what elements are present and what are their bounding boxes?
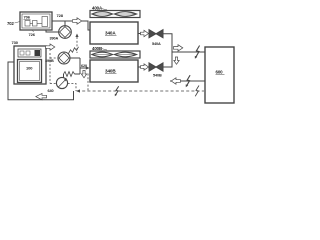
leader 726 — [33, 30, 34, 32]
return wire from cabinet — [8, 62, 74, 100]
evaporator unit 340A — [90, 22, 138, 44]
dashed enclosure right edge — [87, 74, 89, 91]
flexible coupling squiggle — [69, 47, 79, 54]
svg-text:400B: 400B — [92, 46, 102, 51]
arrowhead into 340B — [86, 66, 90, 69]
leader 400A — [102, 9, 107, 10]
suction header wire to unit 600 — [172, 51, 205, 53]
compressor 390B rotor — [59, 53, 69, 63]
wire from box 706 to condenser A — [52, 20, 72, 22]
svg-text:726: 726 — [29, 32, 36, 37]
heater element zigzag — [64, 72, 75, 77]
wire zigzag to riser — [75, 73, 81, 75]
flow arrow (open, right) above header — [174, 45, 183, 51]
valve 540A — [149, 30, 163, 38]
svg-text:706: 706 — [24, 15, 31, 20]
leader 702 — [15, 22, 21, 24]
flow arrow (open, right) at cabinet outlet — [46, 44, 55, 50]
dashed stub to compressor 390B — [50, 57, 58, 59]
fan A2 — [115, 12, 137, 17]
evaporator unit 340B — [90, 60, 138, 82]
flow arrow (open, left) on return wire — [36, 93, 47, 99]
cabinet top tray — [18, 49, 41, 57]
wire box 706 bottom to compressor 390A — [46, 30, 59, 32]
flow arrow (open, down) near riser — [81, 71, 86, 78]
fan B1 — [92, 52, 113, 57]
stub zigzag to expansion device — [63, 74, 65, 78]
break symbol on dashed line (right) — [195, 86, 199, 97]
wire valve 540A to junction — [163, 34, 172, 52]
dashed control line vertical left — [49, 53, 51, 84]
compressor 390A rotor — [60, 27, 71, 38]
arrowhead on dashed suction line A — [75, 34, 78, 38]
condensing unit 600 — [205, 47, 234, 103]
svg-text:400A: 400A — [92, 6, 103, 11]
equipment cabinet 730 — [14, 46, 46, 84]
expansion device diagonal — [58, 79, 65, 87]
dashed liquid line — [77, 90, 204, 92]
svg-text:540A: 540A — [152, 42, 161, 46]
arrowhead on expansion diagonal — [64, 78, 67, 81]
svg-text:620: 620 — [81, 64, 87, 68]
sub-block c inside 706 — [42, 17, 48, 27]
fan A1 — [92, 12, 113, 17]
expansion device 640 — [56, 77, 67, 88]
break symbol on header wire — [196, 46, 200, 58]
wire 340B outlet — [138, 66, 141, 68]
wire valve 540B to junction — [163, 52, 172, 67]
tray dark module — [35, 50, 41, 56]
break symbol on dashed line (small) — [115, 86, 118, 95]
branch wire into unit 340B — [80, 67, 87, 69]
wire compressor 390A to top wire — [64, 21, 66, 26]
sub-block b inside 706 — [33, 21, 38, 27]
flow arrow (open, down) below junction — [174, 57, 179, 64]
flow arrow (open, left) on return wire — [171, 78, 180, 84]
tray tick 2 — [26, 51, 30, 55]
wire between sub-blocks — [30, 23, 33, 25]
fan housing B — [90, 51, 140, 58]
svg-text:600: 600 — [216, 70, 224, 75]
dashed suction line A — [76, 37, 78, 53]
svg-text:702: 702 — [7, 21, 14, 26]
flow arrow (open, right) 340A outlet — [141, 30, 149, 36]
svg-text:540B: 540B — [153, 74, 162, 78]
compressor 390A — [59, 26, 72, 39]
server box 100 outer — [18, 60, 42, 83]
compressor 390B — [58, 52, 70, 64]
wire 340A outlet — [138, 33, 141, 35]
svg-text:340B: 340B — [105, 69, 116, 74]
svg-text:640: 640 — [48, 89, 54, 93]
controller box 706 (inner border) — [22, 14, 50, 28]
wire continuing into unit 340A — [82, 21, 90, 30]
dashed wire expansion device to liquid line — [68, 84, 76, 92]
flow arrow (open, right) 340B outlet — [141, 64, 149, 70]
fan housing A — [90, 11, 140, 18]
flow arrow (open, right) on top wire — [73, 18, 82, 24]
fan B2 — [115, 52, 137, 57]
controller box 706 (outer) — [20, 12, 52, 30]
wire to sub-block c — [37, 23, 42, 25]
tray tick 1 — [20, 51, 24, 55]
arrowhead left end of dashed liquid line — [76, 89, 80, 92]
svg-text:100: 100 — [26, 66, 33, 71]
svg-text:340A: 340A — [105, 31, 116, 36]
sub-block a inside 706 — [25, 21, 30, 27]
server box 100 inner — [20, 62, 40, 81]
break symbol on return wire — [187, 75, 191, 86]
svg-text:728: 728 — [57, 13, 64, 18]
riser wire — [79, 58, 81, 74]
dashed stub to expansion device — [50, 83, 56, 85]
return wire from unit 600 — [170, 80, 205, 82]
wire compressor 390B to riser — [70, 57, 80, 59]
leader 400B — [102, 49, 107, 50]
svg-text:390A: 390A — [50, 37, 59, 41]
svg-text:730: 730 — [12, 40, 19, 45]
valve 540B — [149, 63, 163, 71]
